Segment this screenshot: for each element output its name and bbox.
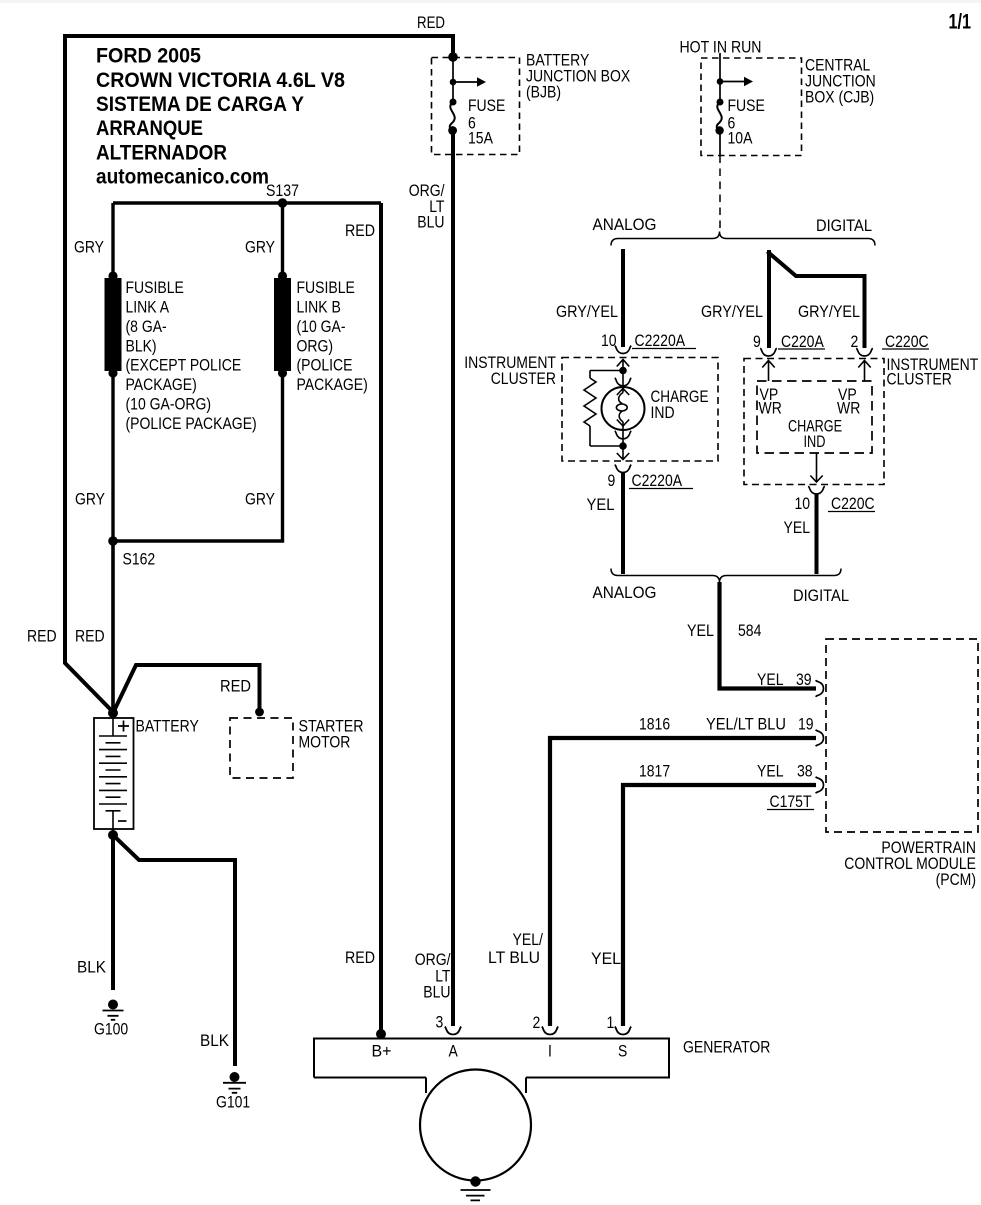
node: analog lamp bottom	[619, 442, 627, 450]
wire: HOT IN RUN feed into CJB	[719, 53, 721, 102]
wire: GRY/YEL digital branch to pin 2	[767, 252, 864, 349]
connector cup: lamp socket bottom	[615, 431, 632, 439]
BJB tap arrow	[450, 77, 486, 87]
brace: lower ANALOG/DIGITAL merge	[611, 569, 841, 583]
svg-text:GRY/YEL: GRY/YEL	[556, 303, 618, 321]
svg-text:BATTERY: BATTERY	[136, 718, 199, 736]
connector cup: generator pin A	[445, 1027, 462, 1035]
underline C2220A top	[632, 348, 696, 350]
svg-text:BLK: BLK	[200, 1032, 229, 1050]
wire: BLK battery negative to G101	[113, 835, 235, 1066]
svg-text:HOT IN RUN: HOT IN RUN	[680, 39, 762, 57]
connector cup: PCM pin 19	[816, 730, 824, 747]
central junction box CJB dashed outline	[701, 58, 802, 156]
node: link B top	[278, 271, 287, 280]
svg-text:S: S	[618, 1043, 627, 1061]
svg-text:GRY/YEL: GRY/YEL	[701, 303, 763, 321]
svg-text:GRY: GRY	[245, 239, 275, 257]
svg-text:BLU: BLU	[423, 984, 450, 1002]
svg-text:FUSIBLE: FUSIBLE	[126, 279, 184, 297]
wire: GRY/YEL digital branch to pin 9	[767, 250, 771, 348]
svg-text:9: 9	[608, 472, 616, 490]
svg-text:1: 1	[607, 1014, 615, 1032]
svg-text:FUSE: FUSE	[728, 97, 765, 115]
connector cup: digital pin 9 C220A	[760, 348, 777, 356]
faint top scan strip	[0, 0, 981, 3]
wire: GRY link B down and left to S162	[113, 373, 283, 541]
wire: GRY drop to fusible link B	[281, 203, 284, 276]
svg-text:10: 10	[795, 495, 811, 513]
svg-text:GRY: GRY	[75, 491, 105, 509]
svg-text:BLU: BLU	[417, 214, 444, 232]
svg-text:YEL: YEL	[784, 519, 811, 537]
wire: 1817 YEL to PCM pin 38	[623, 785, 816, 1026]
svg-text:GRY: GRY	[74, 239, 104, 257]
svg-text:YEL/: YEL/	[513, 931, 544, 949]
arrow into digital cluster pin 9	[762, 361, 774, 382]
svg-text:39: 39	[796, 671, 812, 689]
connector cup: analog pin 10 C2220A	[615, 346, 632, 354]
resistor zigzag	[584, 378, 596, 426]
svg-text:RED: RED	[27, 628, 57, 646]
battery internal top stub	[112, 716, 114, 736]
svg-text:RED: RED	[220, 678, 251, 696]
svg-text:S162: S162	[123, 551, 156, 569]
wire: S137 horizontal bus	[113, 201, 381, 204]
svg-text:BLK: BLK	[77, 959, 106, 977]
generator box	[314, 1039, 669, 1094]
svg-text:WR: WR	[759, 400, 782, 418]
svg-text:3: 3	[436, 1014, 444, 1032]
wire: RED drop S137 to generator B+	[379, 203, 383, 1034]
svg-text:RED: RED	[345, 222, 375, 240]
svg-text:I: I	[548, 1043, 552, 1061]
svg-text:C220C: C220C	[885, 333, 929, 351]
powertrain control module PCM dashed box	[826, 639, 978, 832]
svg-text:584: 584	[738, 622, 761, 640]
svg-text:FORD 2005: FORD 2005	[96, 45, 201, 68]
svg-text:10: 10	[601, 332, 617, 350]
wire: top RED feed from left loop to BJB	[63, 34, 453, 38]
connector cup: generator pin S	[615, 1027, 632, 1035]
wire: GRY drop to fusible link A	[111, 203, 114, 276]
svg-text:GRY/YEL: GRY/YEL	[798, 303, 860, 321]
analog instrument cluster dashed box	[562, 358, 718, 462]
lamp feed wire	[622, 371, 624, 447]
svg-text:CROWN VICTORIA 4.6L V8: CROWN VICTORIA 4.6L V8	[96, 69, 345, 92]
node: link A top	[108, 271, 117, 280]
svg-text:38: 38	[797, 763, 813, 781]
svg-text:(10 GA-: (10 GA-	[297, 318, 346, 336]
digital instrument cluster outer dashed box	[744, 359, 884, 485]
svg-text:C220A: C220A	[781, 333, 824, 351]
svg-text:19: 19	[798, 716, 814, 734]
svg-text:DIGITAL: DIGITAL	[793, 587, 849, 605]
svg-text:SISTEMA DE CARGA Y: SISTEMA DE CARGA Y	[96, 93, 304, 116]
node S162	[108, 536, 118, 546]
svg-text:LINK A: LINK A	[126, 299, 170, 317]
node S137	[278, 198, 288, 208]
svg-text:automecanico.com: automecanico.com	[96, 166, 269, 189]
svg-text:CLUSTER: CLUSTER	[491, 370, 556, 388]
svg-text:(PCM): (PCM)	[936, 871, 976, 889]
battery minus sign	[118, 820, 127, 822]
node: link A bottom	[108, 368, 117, 377]
node: analog lamp top	[619, 367, 627, 375]
fusible link A bar	[105, 278, 122, 371]
svg-text:ORG): ORG)	[297, 337, 334, 355]
svg-text:C175T: C175T	[770, 793, 812, 811]
battery BAT box outline	[94, 718, 134, 829]
svg-text:ALTERNADOR: ALTERNADOR	[96, 141, 227, 164]
svg-text:IND: IND	[651, 404, 675, 422]
lamp filament loop	[616, 404, 627, 411]
battery internal bottom stub	[112, 811, 114, 833]
digital charge ind inner dashed box	[757, 381, 872, 453]
svg-text:15A: 15A	[468, 130, 493, 148]
connector cup: digital pin 2 C220C	[856, 348, 873, 356]
svg-text:YEL: YEL	[587, 496, 615, 514]
svg-text:10A: 10A	[728, 130, 753, 148]
svg-text:C220C: C220C	[831, 495, 875, 513]
connector cup: lamp socket top	[615, 378, 632, 386]
wire: RED top feed into BJB	[451, 34, 455, 57]
svg-text:LT BLU: LT BLU	[488, 949, 540, 967]
wire: dashed link CJB to brace	[719, 156, 721, 230]
svg-text:PACKAGE): PACKAGE)	[297, 376, 368, 394]
svg-text:GRY: GRY	[245, 491, 275, 509]
charge indicator lamp circle	[602, 387, 645, 430]
generator body circle	[420, 1070, 531, 1181]
svg-text:RED: RED	[417, 14, 445, 32]
svg-text:BLK): BLK)	[126, 337, 157, 355]
arrow inside lamp top	[617, 389, 629, 396]
svg-text:ARRANQUE: ARRANQUE	[96, 117, 203, 140]
svg-text:2: 2	[533, 1014, 541, 1032]
brace: upper ANALOG/DIGITAL split	[611, 232, 875, 246]
svg-text:(POLICE PACKAGE): (POLICE PACKAGE)	[126, 415, 257, 433]
svg-text:(8 GA-: (8 GA-	[126, 318, 167, 336]
wire: GRY/YEL drop to analog cluster pin 10	[621, 249, 625, 347]
battery plates	[99, 736, 127, 811]
svg-text:YEL: YEL	[687, 622, 714, 640]
fuse 6 10A element	[715, 99, 723, 135]
svg-text:ORG/: ORG/	[415, 951, 451, 969]
connector cup: digital pin 10 C220C	[808, 486, 825, 494]
connector cup: PCM pin 38	[816, 777, 824, 794]
svg-text:2: 2	[851, 333, 859, 351]
arrow inside lamp bottom	[617, 420, 629, 427]
node: battery negative terminal	[108, 830, 118, 840]
fuse 6 15A element	[448, 99, 457, 135]
wire: 1816 YEL/LT BLU to PCM pin 19	[550, 738, 816, 1026]
svg-text:G100: G100	[94, 1021, 128, 1039]
arrow into analog cluster	[617, 360, 629, 371]
connector cup: analog pin 9 C2220A	[615, 465, 632, 473]
svg-text:(10 GA-ORG): (10 GA-ORG)	[126, 396, 212, 414]
svg-text:(POLICE: (POLICE	[297, 357, 353, 375]
svg-text:WR: WR	[837, 400, 860, 418]
node: generator B+ terminal	[376, 1029, 386, 1039]
svg-text:ANALOG: ANALOG	[593, 584, 657, 602]
connector cup: PCM pin 39	[816, 680, 824, 697]
svg-text:MOTOR: MOTOR	[299, 734, 351, 752]
node: link B bottom	[278, 368, 287, 377]
svg-text:LINK B: LINK B	[297, 299, 341, 317]
underline C220C	[882, 348, 929, 350]
wire: S162 down to battery positive	[111, 541, 115, 713]
wire: RED battery to starter motor	[113, 665, 260, 713]
underline C2220A bottom	[629, 488, 693, 490]
wire: YEL analog pin 9 down to lower brace	[621, 473, 625, 574]
resistor branch (shunt)	[590, 371, 620, 447]
connector cup: generator pin I	[542, 1027, 559, 1035]
generator case ground	[461, 1176, 491, 1200]
wire: BJB internal feed	[452, 57, 454, 102]
svg-text:G101: G101	[216, 1094, 250, 1112]
svg-text:RED: RED	[345, 949, 375, 967]
svg-text:PACKAGE): PACKAGE)	[126, 376, 197, 394]
wire: digital output down	[810, 453, 822, 482]
svg-text:C2220A: C2220A	[635, 332, 686, 350]
svg-text:C2220A: C2220A	[632, 472, 683, 490]
svg-text:FUSE: FUSE	[468, 97, 505, 115]
svg-text:IND: IND	[804, 433, 826, 451]
svg-text:YEL: YEL	[757, 763, 784, 781]
svg-text:BOX (CJB): BOX (CJB)	[805, 89, 874, 107]
battery plus sign	[118, 721, 129, 732]
starter motor dashed box	[230, 718, 293, 778]
underline C220A	[778, 348, 825, 350]
svg-text:YEL/LT BLU: YEL/LT BLU	[706, 716, 786, 734]
underline C175T	[767, 809, 814, 811]
svg-text:1816: 1816	[639, 716, 670, 734]
svg-text:A: A	[449, 1043, 458, 1061]
node: BJB feed at box top	[448, 52, 458, 62]
svg-text:(EXCEPT POLICE: (EXCEPT POLICE	[126, 357, 242, 375]
svg-text:S137: S137	[266, 182, 299, 200]
arrow out of analog cluster	[617, 446, 629, 460]
wire: ORG/LT BLU from BJB down to generator pin A	[451, 132, 455, 1026]
svg-text:YEL: YEL	[757, 671, 784, 689]
wire: CJB internal below fuse	[719, 132, 721, 156]
svg-text:9: 9	[753, 333, 761, 351]
svg-text:1817: 1817	[639, 763, 670, 781]
svg-text:(BJB): (BJB)	[526, 83, 561, 101]
ground G101	[223, 1072, 246, 1093]
svg-text:FUSIBLE: FUSIBLE	[297, 279, 355, 297]
underline C220C bottom	[828, 511, 875, 513]
node: battery positive terminal	[108, 708, 118, 718]
wire: left outer vertical down to battery	[65, 34, 113, 712]
svg-text:CLUSTER: CLUSTER	[887, 371, 952, 389]
fusible link B bar	[274, 278, 291, 371]
battery junction box BJB dashed outline	[432, 58, 520, 155]
svg-text:B+: B+	[372, 1043, 392, 1061]
lamp filament squiggle	[619, 393, 623, 422]
wire: BLK battery negative to G100	[111, 835, 115, 990]
wire: GRY link A down to S162	[111, 373, 114, 541]
svg-text:DIGITAL: DIGITAL	[816, 217, 872, 235]
wire: YEL digital pin 10 down to lower brace	[815, 494, 819, 574]
wire: YEL 584 from brace to PCM pin 39	[720, 582, 817, 689]
arrow into digital cluster pin 2	[858, 361, 870, 382]
svg-text:YEL: YEL	[591, 950, 621, 968]
node: starter motor terminal	[255, 708, 264, 717]
svg-text:RED: RED	[75, 628, 105, 646]
ground G100	[103, 1000, 124, 1020]
svg-text:1/1: 1/1	[949, 11, 972, 34]
svg-text:ANALOG: ANALOG	[593, 216, 657, 234]
svg-text:GENERATOR: GENERATOR	[683, 1039, 770, 1057]
CJB tap arrow	[717, 77, 753, 87]
